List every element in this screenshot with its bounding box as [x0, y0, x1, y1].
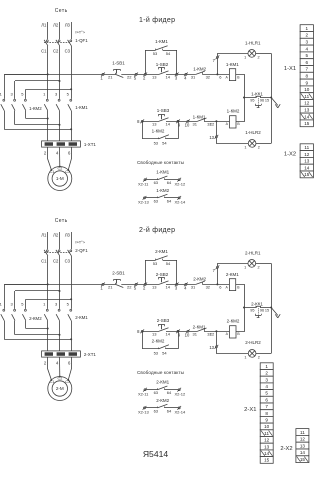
wire phase 2 mid (feeder 2) [59, 256, 61, 309]
wire branch 2 top (feeder 2) [15, 290, 60, 292]
node coils join (feeder 1) [243, 97, 245, 99]
wire phase 2 mid (feeder 1) [59, 46, 61, 99]
wire to coil 2-КМ1 (feeder 2) [202, 284, 229, 286]
svg-text:1-X2: 1-X2 [284, 151, 296, 157]
svg-text:53: 53 [153, 51, 158, 56]
svg-text:С1: С1 [49, 380, 54, 384]
wire node 6 up to lamp (feeder 1) [218, 54, 248, 75]
svg-text:1-HLR1: 1-HLR1 [245, 41, 261, 46]
right rail (feeder 2) [271, 263, 273, 353]
svg-text:1-й фидер: 1-й фидер [139, 16, 175, 24]
svg-text:Л3: Л3 [65, 23, 71, 28]
svg-text:2-КК1: 2-КК1 [251, 301, 263, 306]
svg-text:13: 13 [209, 345, 214, 350]
svg-text:C3: C3 [65, 49, 71, 54]
svg-text:С2: С2 [57, 166, 62, 170]
thermal element (feeder 2) [258, 308, 260, 315]
svg-text:X2-12: X2-12 [175, 181, 186, 186]
wire to coil 1-КМ1 (feeder 1) [202, 74, 229, 76]
svg-text:12: 12 [264, 438, 270, 443]
svg-text:13: 13 [152, 285, 157, 290]
holding contact 1-КМ2 53-54 [142, 121, 144, 139]
svg-text:1: 1 [244, 265, 246, 269]
svg-text:C1: C1 [41, 259, 47, 264]
svg-text:1-X1: 1-X1 [284, 66, 296, 72]
wire branch 2 vertical (feeder 2) [14, 291, 16, 309]
svg-text:1-КМ2: 1-КМ2 [29, 106, 42, 111]
wire coil КМ1 to node (feeder 1) [236, 75, 245, 98]
terminal 5 (feeder 2) [135, 283, 137, 285]
wire coil КМ2 to node (feeder 2) [236, 308, 245, 332]
svg-text:4: 4 [265, 384, 268, 389]
svg-text:2: 2 [306, 33, 309, 38]
svg-text:2: 2 [258, 355, 260, 359]
wire SB1 to SB2 (feeder 2) [121, 284, 159, 286]
node join phase 2 (feeder 2) [59, 334, 61, 336]
svg-text:3: 3 [265, 377, 268, 382]
svg-text:53: 53 [153, 261, 158, 266]
wire SB3 to КМ1 contact (feeder 1) [166, 121, 198, 123]
svg-text:Свободные контакты: Свободные контакты [137, 160, 184, 165]
svg-text:14: 14 [165, 75, 170, 80]
arrow to supply neutral (feeder 1) [271, 98, 278, 106]
node tap phase 2 (feeder 2) [59, 290, 61, 292]
svg-text:С1: С1 [49, 170, 54, 174]
wire phase 3 lower (feeder 1) [71, 111, 73, 141]
svg-text:6: 6 [306, 60, 309, 65]
svg-text:1: 1 [265, 364, 268, 369]
svg-text:21: 21 [108, 285, 113, 290]
wire to coil 2-КМ2 (feeder 2) [204, 331, 230, 333]
svg-text:2-SB3: 2-SB3 [157, 318, 170, 323]
node 6 (feeder 1) [216, 73, 218, 75]
wire SB2 to КМ2 contact (feeder 1) [166, 74, 196, 76]
wire branch 3 vertical (feeder 2) [25, 299, 27, 309]
svg-text:1: 1 [244, 55, 246, 59]
svg-text:2-X1: 2-X1 [244, 407, 256, 413]
svg-text:Л3: Л3 [65, 233, 71, 238]
node tap phase 2 (feeder 1) [59, 80, 61, 82]
svg-text:13: 13 [152, 75, 157, 80]
svg-text:1-КМ1: 1-КМ1 [226, 62, 239, 67]
wire phase Л2 upper (feeder 2) [59, 232, 61, 249]
wire phase 2 lower (feeder 2) [59, 321, 61, 351]
wire block to motor mid (feeder 1) [59, 147, 61, 166]
svg-text:1: 1 [244, 145, 246, 149]
arrow to supply neutral (feeder 2) [271, 308, 278, 316]
svg-text:C3: C3 [65, 259, 71, 264]
svg-text:1-SB1: 1-SB1 [112, 61, 125, 66]
contactor 2-КМ1 main contacts [46, 309, 48, 311]
svg-text:1-SB3: 1-SB3 [157, 108, 170, 113]
wire node 6 up to lamp (feeder 2) [218, 264, 248, 285]
svg-text:2-HLR2: 2-HLR2 [245, 340, 261, 345]
wire lamp HLR2 to rail (feeder 2) [256, 353, 271, 355]
svg-text:31: 31 [191, 285, 196, 290]
svg-text:14: 14 [165, 285, 170, 290]
svg-text:2-КМ2: 2-КМ2 [156, 398, 169, 403]
svg-text:14: 14 [300, 450, 306, 455]
svg-text:13: 13 [304, 159, 310, 164]
svg-text:2-HLR1: 2-HLR1 [245, 251, 261, 256]
svg-text:8: 8 [306, 74, 309, 79]
wire SB3 to КМ1 contact (feeder 2) [166, 331, 198, 333]
svg-text:13: 13 [209, 135, 214, 140]
terminal strip 2-X1 [260, 363, 273, 370]
svg-text:63: 63 [154, 408, 159, 413]
svg-text:5: 5 [265, 391, 268, 396]
wire branch 1 vertical (feeder 1) [4, 74, 6, 99]
node tap phase 1 (feeder 1) [47, 73, 49, 75]
wire phase Л1 upper (feeder 1) [47, 22, 49, 39]
svg-text:54: 54 [166, 261, 171, 266]
svg-text:15: 15 [265, 98, 269, 102]
svg-text:2: 2 [265, 371, 268, 376]
wire phase Л2 upper (feeder 1) [59, 22, 61, 39]
wire branch 3 bottom (feeder 2) [26, 328, 48, 330]
svg-text:2-КМ2: 2-КМ2 [29, 316, 42, 321]
terminal 2 (feeder 2) [144, 283, 146, 285]
svg-text:2-КМ1: 2-КМ1 [155, 249, 168, 254]
wire branch 1 bottom (feeder 2) [4, 339, 71, 341]
svg-text:31: 31 [192, 332, 197, 337]
svg-text:14: 14 [304, 165, 310, 170]
svg-text:C2: C2 [53, 49, 59, 54]
terminal 8 (feeder 1) [141, 120, 143, 122]
svg-text:2-X2: 2-X2 [280, 446, 292, 452]
svg-text:14: 14 [165, 332, 170, 337]
svg-text:4: 4 [306, 46, 309, 51]
circuit breaker 2-QF1 [46, 250, 48, 252]
svg-text:2: 2 [258, 55, 260, 59]
wire branch 2 vertical (feeder 1) [14, 81, 16, 99]
wire phase 2 lower (feeder 1) [59, 111, 61, 141]
svg-text:95: 95 [250, 309, 254, 313]
wire phase 3 mid (feeder 2) [71, 256, 73, 309]
svg-text:1-КМ1: 1-КМ1 [156, 169, 169, 174]
svg-text:15: 15 [265, 308, 269, 312]
terminal 10 (feeder 2) [187, 330, 189, 332]
svg-text:32: 32 [206, 75, 211, 80]
svg-text:1-КМ1: 1-КМ1 [155, 39, 168, 44]
wire branch 3 top (feeder 1) [26, 89, 71, 91]
wire branch 1 top (feeder 1) [4, 74, 48, 76]
motor 1-М [48, 167, 72, 191]
svg-text:13: 13 [152, 122, 157, 127]
svg-text:11: 11 [264, 431, 269, 436]
wire block to motor right (feeder 1) [68, 147, 71, 170]
svg-text:2-КМ1: 2-КМ1 [75, 315, 88, 320]
svg-text:2-й фидер: 2-й фидер [139, 226, 175, 234]
contactor 2-КМ2 main contacts [3, 309, 5, 311]
node join phase 3 (feeder 2) [70, 338, 72, 340]
terminal 1 (feeder 2) [102, 283, 104, 285]
wire node 12 down to lamp (feeder 1) [217, 121, 249, 143]
svg-text:C2: C2 [53, 259, 59, 264]
svg-text:63: 63 [154, 198, 159, 203]
svg-text:Л2: Л2 [53, 233, 59, 238]
svg-text:15: 15 [264, 458, 270, 463]
svg-text:2-КМ2: 2-КМ2 [152, 338, 165, 343]
svg-text:15: 15 [304, 172, 310, 177]
svg-text:2-КМ2: 2-КМ2 [193, 276, 206, 281]
svg-text:1-КМ2: 1-КМ2 [152, 128, 165, 133]
wire SB1 to SB2 (feeder 1) [121, 74, 159, 76]
svg-text:X2-11: X2-11 [138, 391, 149, 396]
terminal block 2-ХТ1 [42, 351, 81, 357]
wire coil КМ2 to node (feeder 1) [236, 98, 245, 122]
svg-text:64: 64 [167, 180, 172, 185]
svg-text:54: 54 [166, 51, 171, 56]
svg-text:96: 96 [260, 309, 264, 313]
svg-text:22: 22 [127, 75, 132, 80]
contactor 1-КМ2 main contacts [3, 99, 5, 101]
contactor 1-КМ1 main contacts [46, 99, 48, 101]
svg-text:X2-14: X2-14 [175, 410, 186, 415]
svg-text:I»T°>: I»T°> [75, 239, 85, 244]
svg-text:22: 22 [127, 285, 132, 290]
svg-text:15: 15 [300, 457, 306, 462]
svg-text:15: 15 [304, 121, 310, 126]
svg-text:1: 1 [244, 355, 246, 359]
wire phase Л3 upper (feeder 2) [71, 232, 73, 249]
terminal 7 (feeder 1) [216, 56, 218, 58]
node 6 (feeder 2) [216, 283, 218, 285]
svg-text:10: 10 [185, 333, 190, 338]
svg-text:53: 53 [154, 141, 159, 146]
svg-text:С2: С2 [57, 376, 62, 380]
node tap phase 3 (feeder 2) [70, 298, 72, 300]
terminal 2 (feeder 1) [144, 73, 146, 75]
svg-text:Я5414: Я5414 [143, 449, 169, 459]
svg-text:13: 13 [304, 108, 310, 113]
terminal block 1-ХТ1 [42, 141, 81, 147]
svg-text:54: 54 [162, 351, 167, 356]
svg-text:1-М: 1-М [56, 176, 64, 181]
holding contact 2-КМ1 53-54 [145, 260, 147, 284]
node rail (feeder 1) [270, 97, 272, 99]
svg-text:1-ХТ1: 1-ХТ1 [84, 142, 97, 147]
terminal 3 (feeder 1) [176, 73, 178, 75]
svg-text:12: 12 [304, 101, 310, 106]
wire branch 3 bottom (feeder 1) [26, 118, 48, 120]
svg-text:11: 11 [300, 430, 305, 435]
node join phase 1 (feeder 1) [47, 118, 49, 120]
terminal 3 (feeder 2) [176, 283, 178, 285]
svg-text:1-КМ2: 1-КМ2 [156, 188, 169, 193]
wire terminal 8 to SB3 (feeder 1) [142, 121, 159, 123]
node coils join (feeder 2) [243, 307, 245, 309]
wire block to motor left (feeder 1) [48, 147, 52, 170]
circuit breaker 1-QF1 [46, 40, 48, 42]
wire branch 2 bottom (feeder 2) [15, 334, 60, 336]
svg-text:64: 64 [167, 408, 172, 413]
svg-text:1: 1 [306, 26, 309, 31]
svg-text:Л2: Л2 [53, 23, 59, 28]
wire branch 3 top (feeder 2) [26, 299, 71, 301]
svg-text:9: 9 [306, 80, 309, 85]
wire phase Л3 upper (feeder 1) [71, 22, 73, 39]
svg-text:5: 5 [306, 53, 309, 58]
svg-text:1-КМ1: 1-КМ1 [75, 105, 88, 110]
wire branch 1 top (feeder 2) [4, 284, 48, 286]
svg-text:8: 8 [265, 411, 268, 416]
terminal 1 (feeder 1) [102, 73, 104, 75]
svg-text:1-КК1: 1-КК1 [251, 91, 263, 96]
svg-text:2: 2 [258, 145, 260, 149]
terminal 10 (feeder 1) [187, 120, 189, 122]
svg-text:1-SB2: 1-SB2 [156, 62, 169, 67]
svg-text:95: 95 [250, 99, 254, 103]
svg-text:1-КМ2: 1-КМ2 [193, 66, 206, 71]
node tap phase 1 (feeder 2) [47, 283, 49, 285]
node tap phase 3 (feeder 1) [70, 88, 72, 90]
wire terminal 8 to SB3 (feeder 2) [142, 331, 159, 333]
wire to coil 1-КМ2 (feeder 1) [204, 121, 230, 123]
svg-text:96: 96 [260, 99, 264, 103]
terminal 13 (feeder 2) [215, 346, 217, 348]
svg-text:2-М: 2-М [56, 386, 64, 391]
terminal 9 (feeder 2) [177, 330, 179, 332]
svg-text:31: 31 [191, 75, 196, 80]
svg-text:2-КМ1: 2-КМ1 [156, 379, 169, 384]
svg-text:14: 14 [304, 114, 310, 119]
svg-text:X2-12: X2-12 [175, 391, 186, 396]
svg-text:64: 64 [167, 390, 172, 395]
svg-text:1-QF1: 1-QF1 [75, 38, 88, 43]
svg-text:12: 12 [304, 152, 310, 157]
wire phase Л1 upper (feeder 2) [47, 232, 49, 249]
terminal 7 (feeder 2) [216, 266, 218, 268]
svg-text:3: 3 [306, 40, 309, 45]
svg-text:31: 31 [192, 122, 197, 127]
wire phase 1 mid (feeder 1) [47, 46, 49, 99]
wire coil КМ1 to node (feeder 2) [236, 285, 245, 308]
svg-text:2-ХТ1: 2-ХТ1 [84, 352, 97, 357]
wire block to motor left (feeder 2) [48, 357, 52, 380]
wire branch 3 vertical (feeder 1) [25, 89, 27, 99]
holding contact 1-КМ1 53-54 [145, 50, 147, 74]
wire block to motor mid (feeder 2) [59, 357, 61, 376]
wire branch 2 bottom (feeder 1) [15, 124, 60, 126]
svg-text:32: 32 [206, 285, 211, 290]
svg-text:2: 2 [258, 265, 260, 269]
svg-text:Сеть: Сеть [55, 218, 68, 224]
svg-text:10: 10 [304, 87, 310, 92]
terminal 13 (feeder 1) [215, 136, 217, 138]
wire phase 3 lower (feeder 2) [71, 321, 73, 351]
svg-text:Л1: Л1 [41, 233, 47, 238]
wire lamp HLR1 to rail (feeder 2) [256, 263, 272, 265]
svg-text:11: 11 [304, 145, 309, 150]
wire branch 1 vertical (feeder 2) [4, 284, 6, 309]
svg-text:12: 12 [210, 121, 215, 126]
svg-text:54: 54 [162, 141, 167, 146]
node join phase 1 (feeder 2) [47, 328, 49, 330]
svg-text:X2-13: X2-13 [138, 410, 149, 415]
svg-text:7: 7 [306, 67, 309, 72]
svg-text:10: 10 [264, 424, 270, 429]
wire lamp HLR2 to rail (feeder 1) [256, 143, 271, 145]
thermal element (feeder 1) [258, 98, 260, 105]
terminal 4 (feeder 1) [185, 73, 187, 75]
svg-text:64: 64 [167, 198, 172, 203]
svg-text:X2-11: X2-11 [138, 181, 149, 186]
wire lamp HLR1 to rail (feeder 1) [256, 53, 272, 55]
svg-text:C1: C1 [41, 49, 47, 54]
wire phase 1 mid (feeder 2) [47, 256, 49, 309]
svg-text:63: 63 [154, 180, 159, 185]
wire branch 2 top (feeder 1) [15, 80, 60, 82]
svg-text:6: 6 [265, 397, 268, 402]
svg-text:11: 11 [304, 94, 309, 99]
terminal 5 (feeder 1) [135, 73, 137, 75]
terminal 4 (feeder 2) [185, 283, 187, 285]
svg-text:12: 12 [300, 437, 306, 442]
wire phase 3 mid (feeder 1) [71, 46, 73, 99]
svg-text:X2-13: X2-13 [138, 200, 149, 205]
svg-text:63: 63 [154, 390, 159, 395]
node join phase 3 (feeder 1) [70, 128, 72, 130]
svg-text:7: 7 [265, 404, 268, 409]
wire phase 1 lower (feeder 1) [47, 111, 49, 141]
terminal strip 2-X2 [296, 429, 309, 436]
svg-text:13: 13 [152, 332, 157, 337]
terminal strip 1-X2 [300, 144, 313, 151]
node rail (feeder 2) [270, 307, 272, 309]
svg-text:13: 13 [300, 443, 306, 448]
svg-text:53: 53 [154, 351, 159, 356]
wire control line (feeder 1) [4, 74, 115, 76]
svg-text:2-QF1: 2-QF1 [75, 248, 88, 253]
wire control line (feeder 2) [4, 284, 115, 286]
terminal strip 1-X1 [300, 25, 313, 32]
svg-text:21: 21 [108, 75, 113, 80]
svg-text:12: 12 [210, 331, 215, 336]
motor 2-М [48, 377, 72, 401]
wire branch 1 bottom (feeder 1) [4, 129, 71, 131]
node join phase 2 (feeder 1) [59, 124, 61, 126]
wire node 12 down to lamp (feeder 2) [217, 331, 249, 353]
svg-text:Свободные контакты: Свободные контакты [137, 370, 184, 375]
svg-text:9: 9 [265, 418, 268, 423]
svg-text:X2-14: X2-14 [175, 200, 186, 205]
terminal 9 (feeder 1) [177, 120, 179, 122]
svg-text:С3: С3 [65, 380, 70, 384]
node 12 (feeder 2) [215, 330, 217, 332]
wire block to motor right (feeder 2) [68, 357, 71, 380]
svg-text:2-КМ2: 2-КМ2 [227, 319, 240, 324]
wire SB2 to КМ2 contact (feeder 2) [166, 284, 196, 286]
wire phase 1 lower (feeder 2) [47, 321, 49, 351]
svg-text:I»T°>: I»T°> [75, 29, 85, 34]
svg-text:1-HLR2: 1-HLR2 [245, 130, 261, 135]
svg-text:2-SB2: 2-SB2 [156, 272, 169, 277]
svg-text:Сеть: Сеть [55, 8, 68, 14]
holding contact 2-КМ2 53-54 [142, 331, 144, 349]
svg-text:2-SB1: 2-SB1 [112, 271, 125, 276]
svg-text:13: 13 [264, 444, 270, 449]
terminal 8 (feeder 2) [141, 330, 143, 332]
svg-text:14: 14 [165, 122, 170, 127]
svg-text:2-КМ1: 2-КМ1 [226, 272, 239, 277]
svg-text:Л1: Л1 [41, 23, 47, 28]
svg-text:1-КМ2: 1-КМ2 [227, 109, 240, 114]
right rail (feeder 1) [271, 53, 273, 143]
svg-text:10: 10 [185, 123, 190, 128]
svg-text:14: 14 [264, 451, 270, 456]
svg-text:С3: С3 [65, 170, 70, 174]
